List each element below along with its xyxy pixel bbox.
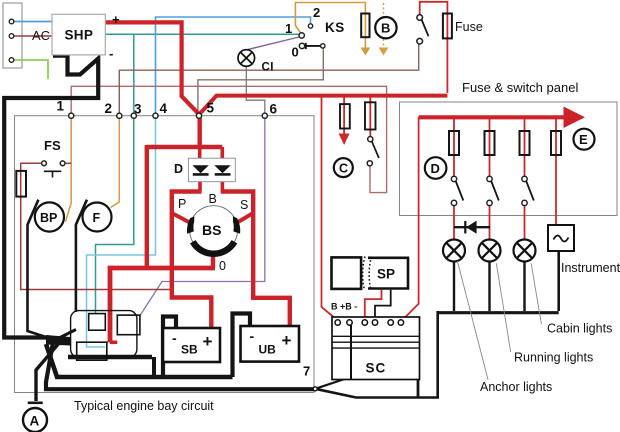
junction 7 node	[313, 387, 317, 391]
engine block	[71, 311, 137, 358]
svg-text:2: 2	[105, 101, 113, 116]
wire AC live	[12, 35, 53, 37]
svg-text:+: +	[112, 12, 120, 27]
wire thick black UB minus cable	[233, 314, 251, 378]
svg-text:B: B	[209, 192, 217, 206]
starter solenoid	[89, 314, 106, 331]
wire cyan node 4 to starter	[87, 119, 156, 348]
node 4	[153, 113, 158, 118]
wire black cabin lamp earth	[523, 261, 525, 311]
panel column 1 red wiring	[453, 117, 455, 240]
svg-text:0: 0	[219, 259, 226, 273]
panel fuse 3	[520, 131, 530, 155]
panel column 3 red wiring	[524, 117, 526, 240]
svg-text:4: 4	[160, 101, 168, 116]
earth anode A	[23, 408, 47, 432]
wire red battery-meter switch to main fuse	[420, 2, 448, 93]
svg-text:CI: CI	[262, 62, 275, 74]
wire red sub panel feed to SC terminal 1	[322, 96, 339, 322]
earth fan blob	[46, 335, 70, 346]
svg-text:D: D	[174, 162, 183, 176]
svg-text:S: S	[240, 198, 248, 212]
panel fuse 2	[485, 131, 495, 155]
wire red starter stub	[110, 340, 117, 344]
wire red into diode pair	[200, 147, 223, 166]
node 3	[131, 113, 136, 118]
SC terminal 2	[347, 320, 352, 325]
node 5	[196, 113, 201, 118]
fuse & switch panel boundary box	[400, 102, 618, 216]
fuse C2	[365, 102, 376, 129]
wire teal node 3 to starter solenoid	[96, 119, 134, 314]
wire thick red SHP plus to node 5	[105, 22, 199, 114]
panel switch 3	[522, 176, 527, 181]
svg-text:Typical engine bay circuit: Typical engine bay circuit	[74, 399, 214, 413]
battery SB	[163, 328, 220, 362]
svg-text:6: 6	[270, 102, 278, 117]
svg-text:E: E	[579, 132, 588, 147]
wire thick red T left drop to starter bus	[145, 145, 149, 268]
wire dotted ammeter B lower	[383, 39, 385, 48]
wire thick red P branch to SB battery	[172, 192, 212, 328]
fuse bilge feed	[361, 14, 369, 38]
starter motor box	[77, 342, 107, 360]
wire black SP panel B- to SC terminal 4	[375, 290, 391, 320]
wire purple KS pole to CI lamp	[247, 37, 302, 50]
switch charge meter	[368, 137, 373, 142]
wire thick black main earth run to junction 7	[46, 343, 315, 390]
earth bar	[28, 401, 43, 404]
svg-text:Instrument: Instrument	[561, 261, 620, 275]
instrument box	[548, 225, 574, 251]
wire black lamp earth bus	[438, 311, 559, 314]
AC terminal 3	[9, 58, 14, 63]
svg-text:D: D	[431, 161, 440, 176]
svg-text:-: -	[172, 330, 177, 346]
arrow dotted wire	[379, 48, 389, 56]
svg-text:+: +	[282, 331, 292, 350]
svg-text:KS: KS	[325, 20, 345, 35]
wire blue AC to SHP	[12, 21, 53, 23]
terminal strip SC	[332, 317, 420, 380]
wire red P contact diagonal	[172, 213, 192, 224]
svg-text:1: 1	[57, 99, 65, 114]
earth ray to engine block	[56, 330, 76, 340]
panel column 2 red wiring	[489, 117, 491, 240]
svg-text:AC: AC	[32, 28, 50, 43]
fuse main	[443, 14, 452, 39]
lamp cabin light	[514, 240, 536, 262]
wire black earth stem to anode A	[36, 342, 60, 401]
bilge pump BP	[35, 202, 64, 231]
wire thick black SHP minus zigzag to hull earth	[4, 56, 98, 338]
svg-text:SB: SB	[181, 343, 198, 357]
wire orange KS pole to top fuse	[295, 3, 365, 49]
SP dotted hinge arcs	[363, 257, 365, 291]
wire black junction 7 to SC box	[315, 377, 352, 389]
svg-text:Running lights: Running lights	[514, 351, 593, 365]
SC terminal 6	[398, 320, 403, 325]
wire thick red node 5 down to T	[197, 114, 201, 147]
battery meter switch	[417, 15, 423, 21]
sub panel SP left block	[332, 257, 362, 289]
wire red SP panel B+ to SC terminal 3	[365, 290, 382, 320]
wire red panel feed from bus to SC terminal 6	[401, 117, 419, 322]
pointer line cabin lights	[531, 263, 541, 324]
pointer line running lights	[496, 263, 510, 352]
svg-text:7: 7	[303, 364, 310, 379]
charging indicator lamp CI	[238, 50, 255, 67]
wire red out of diode pair	[200, 174, 222, 192]
pointer line anchor lights	[457, 261, 488, 380]
meter circle C	[334, 158, 353, 177]
wire dotted ammeter B upper	[383, 3, 385, 17]
svg-text:SC: SC	[366, 361, 387, 376]
diode box D	[188, 158, 235, 182]
wire thick red S branch to UB battery	[221, 192, 290, 328]
wire CI lamp to node 6	[246, 67, 264, 114]
wire orange node 1 to bilge pump BP	[66, 119, 72, 222]
wire orange node 2 to alternator F	[111, 119, 120, 208]
svg-text:Fuse: Fuse	[455, 20, 483, 34]
svg-text:A: A	[30, 414, 40, 429]
lamp anchor light	[443, 240, 465, 262]
svg-text:-: -	[109, 46, 113, 61]
wire black alternator F to engine	[76, 200, 87, 312]
svg-text:BS: BS	[202, 222, 221, 238]
svg-text:B +B -: B +B -	[331, 302, 357, 312]
svg-text:UB: UB	[259, 343, 277, 357]
sub panel SP right block	[368, 258, 408, 289]
svg-text:FS: FS	[44, 138, 61, 153]
SC terminal 3	[362, 320, 367, 325]
alternator F	[83, 203, 112, 232]
wire black instrument earth	[557, 251, 560, 311]
svg-text:BP: BP	[40, 211, 57, 225]
panel column 4 red wiring to instrument	[555, 117, 557, 227]
wire blue KS terminal 2 to node 4	[156, 17, 311, 113]
panel bus with arrow E	[419, 115, 566, 119]
AC terminal 2	[9, 34, 14, 39]
wire thick red node 5 right leg to main fuse bus	[199, 96, 448, 115]
SC terminal 5	[388, 320, 393, 325]
wire thick black engine bottom	[68, 355, 152, 359]
AC supply box	[3, 3, 22, 68]
SC terminal 4	[372, 320, 377, 325]
diode D2	[214, 165, 230, 173]
panel fuse 1	[449, 131, 459, 155]
point circle E	[574, 129, 595, 150]
wire thick black battery earth run	[46, 344, 233, 377]
wire red branch to fuse C1	[343, 96, 345, 134]
wire teal branch to node 3	[133, 34, 135, 113]
wire node 2 to battery meter switch	[119, 44, 418, 113]
fuse bilge pump	[16, 171, 26, 197]
key switch KS	[308, 24, 312, 28]
battery UB	[241, 326, 300, 362]
svg-text:F: F	[93, 211, 101, 225]
node 6	[262, 113, 267, 118]
wire black running lamp earth	[488, 261, 490, 311]
svg-text:C: C	[339, 162, 348, 176]
svg-text:SP: SP	[377, 267, 395, 282]
wire dark red FS to fuse to engine feed	[21, 163, 170, 289]
panel fuse 4	[551, 131, 561, 155]
point circle D	[425, 157, 447, 179]
wire black anchor lamp earth	[453, 261, 455, 311]
svg-text:Cabin lights: Cabin lights	[547, 322, 612, 336]
wire black BP pump earth	[28, 200, 53, 339]
fuse cabin C1	[340, 104, 350, 128]
arrow red to cabin feed C	[339, 134, 350, 146]
lamp running light	[479, 240, 501, 262]
wire black SC terminal 6 earth	[402, 324, 418, 398]
SC terminal 1	[335, 320, 340, 325]
wire thick red BS position 0 output	[211, 251, 215, 268]
wire teal SHP to KS terminal 1	[105, 33, 300, 35]
svg-text:SHP: SHP	[65, 28, 94, 43]
svg-text:Anchor lights: Anchor lights	[480, 380, 552, 394]
svg-text:5: 5	[207, 101, 215, 116]
wire FS right contact to orange	[63, 162, 72, 164]
svg-text:-: -	[250, 328, 255, 344]
wire black junction 7 to lamp earth bus	[315, 311, 438, 398]
node 1	[69, 113, 74, 118]
wire thick red T horizontal	[147, 145, 223, 149]
engine sender box	[117, 315, 140, 335]
battery selector switch BS	[190, 206, 238, 254]
svg-text:Fuse & switch panel: Fuse & switch panel	[462, 80, 578, 95]
engine bay boundary box	[15, 116, 315, 393]
svg-text:3: 3	[134, 101, 142, 116]
wire green AC earth	[12, 60, 49, 79]
diode D1	[192, 165, 208, 173]
svg-text:1: 1	[285, 21, 292, 36]
wire node 5 to KS blade terminal	[198, 49, 323, 114]
AC terminal 1	[9, 19, 14, 24]
ammeter B	[375, 17, 396, 38]
panel switch 1	[451, 176, 456, 181]
blocking diode anchor light	[454, 226, 490, 228]
wire red branch to fuse C2	[369, 96, 371, 137]
wire purple node 6 to engine sender	[140, 119, 265, 316]
arrow orange to bilge pump	[361, 48, 371, 56]
svg-text:P: P	[178, 197, 186, 211]
wire thick black SB minus cable	[163, 317, 176, 378]
wire red S contact diagonal	[236, 213, 254, 224]
shore power unit SHP	[52, 14, 105, 55]
node 2	[117, 113, 122, 118]
wire black engine to earth link	[152, 357, 156, 377]
svg-text:+: +	[203, 332, 213, 351]
svg-text:0: 0	[292, 45, 299, 60]
svg-text:B: B	[381, 21, 390, 36]
SC internal link	[350, 325, 352, 379]
float switch FS	[42, 161, 47, 166]
wire node 1 to charge-meter switch	[71, 86, 386, 192]
panel switch 2	[487, 176, 492, 181]
wire thick red starter bus	[110, 268, 215, 343]
svg-text:2: 2	[313, 5, 320, 20]
